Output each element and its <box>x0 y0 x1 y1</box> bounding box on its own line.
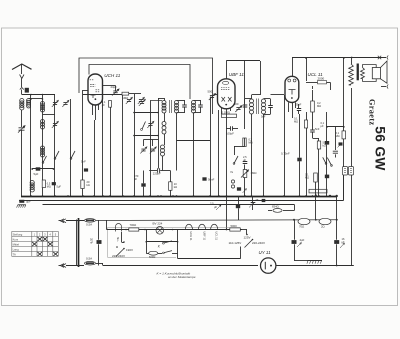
fuse 0.5A top <box>85 219 96 223</box>
capacitor 220pF <box>149 170 157 172</box>
wire screen box B <box>89 65 190 100</box>
wire bus tails <box>343 175 345 201</box>
svg-text:5nF: 5nF <box>81 160 86 164</box>
wire electrolytic 2 <box>336 220 338 240</box>
transformer Fe <box>343 167 348 176</box>
heater UCH11 <box>185 224 192 229</box>
capacitor dark bus2 <box>262 199 266 202</box>
resistor 50kΩ <box>317 141 320 149</box>
svg-text:μF: μF <box>342 240 345 244</box>
capacitor tuning variable <box>19 128 25 130</box>
coil IF1 tertiary <box>162 122 166 135</box>
svg-text:0,5A: 0,5A <box>86 256 92 260</box>
wire antenna node <box>22 94 55 96</box>
coil L3 <box>41 146 45 157</box>
resistor 70Ω oval <box>298 218 310 224</box>
wire vertical x68 <box>70 99 72 196</box>
svg-text:an der Skalenlampe: an der Skalenlampe <box>168 275 196 279</box>
capacitor 50nF mains <box>98 220 100 239</box>
wire link y115 <box>43 114 56 116</box>
wire vertical x134 <box>134 94 136 196</box>
coil antenna primary <box>20 99 24 111</box>
svg-text:MΩ: MΩ <box>47 185 51 188</box>
resistor 0.1MΩ <box>304 120 307 128</box>
svg-text:μF: μF <box>321 124 324 128</box>
capacitor 25 below bus <box>251 203 256 205</box>
wire heater rail <box>106 220 108 229</box>
wire screen feed <box>306 58 308 81</box>
svg-text:UCH 11: UCH 11 <box>189 232 193 242</box>
tube UY11 internals <box>264 262 266 270</box>
resistor 0.1MΩ right <box>342 131 346 139</box>
speaker <box>372 68 380 79</box>
capacitor 16uF electrolytic <box>334 240 339 244</box>
wire y169 <box>32 168 53 170</box>
osc box lower <box>144 139 159 141</box>
wire grid row <box>103 85 116 87</box>
bus second <box>19 200 344 202</box>
wire rail bottom <box>96 263 103 265</box>
wire anode link y61 <box>226 60 260 62</box>
svg-text:5000: 5000 <box>231 224 238 228</box>
wire x158 <box>158 100 160 169</box>
bus junction dots <box>30 195 32 197</box>
lamp socket <box>116 224 122 232</box>
wire speaker top <box>344 57 386 59</box>
coil IF2 secondary <box>262 99 266 114</box>
svg-text:5nF: 5nF <box>261 115 266 119</box>
capacitor dark below bus <box>236 205 240 208</box>
selector left arm <box>116 249 124 257</box>
ground left <box>18 204 26 206</box>
switch S2 <box>70 158 72 160</box>
trimmer trap2 <box>151 149 155 151</box>
resistor 2Ω oval <box>319 218 331 224</box>
wire grid from IF2 <box>271 94 285 96</box>
svg-text:5μF: 5μF <box>57 185 62 189</box>
wire vertical x31 <box>30 95 32 197</box>
capacitor 4uF electrolytic <box>292 240 297 244</box>
svg-text:MΩ: MΩ <box>294 120 298 124</box>
svg-text:μF: μF <box>214 205 217 209</box>
wire y140 link <box>177 140 211 142</box>
svg-text:2Ω: 2Ω <box>321 225 325 229</box>
wire diode left <box>214 94 217 96</box>
wire IF2 bottoms <box>251 114 253 196</box>
trimmer C-L3 <box>53 124 57 126</box>
resistor 10kΩ <box>169 182 172 191</box>
trimmer osc padder <box>127 100 131 102</box>
speaker connection X <box>378 56 381 59</box>
svg-text:5nF: 5nF <box>315 127 320 131</box>
wire bottom rail right <box>276 265 354 267</box>
resistor 0.2MΩ screen <box>311 101 315 112</box>
svg-text:220-240V: 220-240V <box>112 254 125 258</box>
switch mains DPST <box>78 218 80 267</box>
svg-text:0,75nF: 0,75nF <box>281 152 290 156</box>
heater UCL11 <box>211 224 218 229</box>
wire down to bus <box>21 130 23 196</box>
wire x336 bus to rail <box>336 196 338 220</box>
svg-text:UBF 11: UBF 11 <box>202 232 206 241</box>
wire IF1 verticals <box>164 113 166 122</box>
capacitor 100pF <box>231 126 233 131</box>
wire x219 <box>218 110 220 196</box>
wire UCH pins <box>92 105 94 115</box>
wire IF2 tops <box>251 95 253 99</box>
trimmer C-L2 <box>63 103 67 105</box>
wire lamp circuit <box>121 232 123 242</box>
trimmer trap <box>141 149 145 151</box>
switch K <box>163 242 165 244</box>
wire speaker bottom <box>381 86 386 88</box>
svg-text:500: 500 <box>208 90 213 94</box>
switch S0 <box>42 162 44 164</box>
wire vertical x42 <box>42 95 44 197</box>
wire mains bottom <box>66 265 84 267</box>
resistor 1MΩ <box>122 92 129 95</box>
coil L1 <box>41 102 45 113</box>
wire x315.8 down <box>315 196 317 220</box>
trimmer osc 2 <box>139 100 143 102</box>
tube UBF11 <box>218 79 236 109</box>
wire to selector <box>240 229 247 231</box>
heater UBF11 <box>198 224 205 229</box>
wire x83 tube left <box>83 90 88 92</box>
table band switch <box>12 232 59 257</box>
svg-text:UCH 11: UCH 11 <box>104 73 120 78</box>
svg-text:70Ω: 70Ω <box>299 225 304 229</box>
connector TA jacks <box>231 180 234 183</box>
svg-text:190V: 190V <box>126 248 133 252</box>
IF2 core <box>257 99 259 115</box>
capacitor 5nF <box>36 167 41 170</box>
bus third <box>43 204 295 206</box>
capacitor IF1a <box>182 105 187 107</box>
switch osc <box>141 129 143 131</box>
resistor 0.5 MΩ <box>42 180 45 188</box>
wire UBF pins <box>221 108 223 114</box>
junction dots heater rail <box>125 229 127 231</box>
svg-text:Sk.L: Sk.L <box>116 237 119 242</box>
coil IF1 secondary <box>175 101 179 114</box>
coil antenna secondary <box>27 99 31 109</box>
wire transformer secondary <box>363 65 377 68</box>
tube UY11 <box>261 258 276 273</box>
svg-text:125V: 125V <box>244 236 251 240</box>
svg-text:kΩ: kΩ <box>174 185 177 189</box>
potentiometer 1MΩ volume <box>243 170 247 178</box>
svg-text:0,5A: 0,5A <box>86 223 92 227</box>
capacitor IF2b <box>268 106 273 108</box>
svg-text:700Ω: 700Ω <box>130 223 137 227</box>
resistor 0.2MΩ <box>243 138 246 147</box>
svg-text:834Ω: 834Ω <box>272 205 279 209</box>
wire x315 down <box>315 182 317 196</box>
wire x226 junction <box>226 229 228 231</box>
wire x170 <box>170 171 172 182</box>
wire x234 down <box>234 146 236 155</box>
wire top link y99 <box>29 98 43 100</box>
svg-text:56 GW: 56 GW <box>373 126 388 171</box>
svg-text:TA: TA <box>13 252 16 256</box>
tube UCL11 internals <box>288 79 291 82</box>
svg-text:110-125V: 110-125V <box>229 241 242 245</box>
capacitor IF2a <box>243 105 248 107</box>
transformer output primary <box>349 64 354 85</box>
table X marks <box>38 237 43 241</box>
resistor 834Ω oval <box>273 209 282 213</box>
tube UBF11 internals <box>223 81 229 84</box>
svg-text:220-240V: 220-240V <box>252 241 265 245</box>
svg-text:MΩ: MΩ <box>336 134 340 138</box>
svg-text:Kurz: Kurz <box>13 237 19 241</box>
selector box <box>108 228 241 258</box>
svg-text:Mittel: Mittel <box>13 242 20 246</box>
wire vertical x110 <box>110 108 112 197</box>
bus chassis main <box>21 196 337 198</box>
svg-text:5μF: 5μF <box>34 172 39 176</box>
capacitor dark TA <box>237 187 241 190</box>
coil L4 <box>30 181 34 192</box>
svg-text:Lang: Lang <box>13 247 19 251</box>
plug mains bottom <box>62 264 66 268</box>
svg-text:UY 11: UY 11 <box>259 250 272 255</box>
ground chassis comb <box>308 260 323 262</box>
wire vertical x94 <box>94 120 96 196</box>
wire vertical x103 <box>102 96 104 196</box>
trimmer C-L1 <box>53 103 57 105</box>
capacitor IF1b <box>198 105 203 107</box>
svg-text:100pF: 100pF <box>226 132 234 136</box>
capacitor 5nF UCL <box>310 130 315 132</box>
svg-text:kΩ: kΩ <box>87 183 90 187</box>
wire selector down <box>240 247 242 259</box>
wire link y127 <box>327 126 344 128</box>
svg-text:Graetz: Graetz <box>368 99 377 126</box>
resistor 500Ω oval <box>149 251 158 255</box>
svg-text:nF: nF <box>90 241 93 245</box>
wire electrolytic 1 <box>294 220 296 240</box>
resistor cathode <box>109 101 112 108</box>
capacitor dark x327 low <box>325 175 329 179</box>
transformer output secondary <box>361 68 365 79</box>
svg-text:BV 224: BV 224 <box>153 222 163 226</box>
svg-text:MΩ: MΩ <box>249 141 253 145</box>
coil L2 <box>41 120 45 130</box>
tube UCH11 internals <box>90 80 100 92</box>
wire x194 down <box>193 113 195 196</box>
wire UBF top <box>226 61 228 79</box>
wire UCL top <box>292 58 294 77</box>
capacitor dark 10uF <box>207 173 209 175</box>
svg-text:50nF: 50nF <box>208 178 215 182</box>
svg-text:Stellung: Stellung <box>13 232 23 236</box>
network box above bus <box>309 189 327 193</box>
speaker terminal hooks <box>387 56 388 89</box>
wire y94 row <box>83 94 122 96</box>
IF1 core <box>169 100 171 113</box>
resistor 0.1MΩ output grid <box>314 173 318 182</box>
wire B+ right column <box>343 58 345 131</box>
wire anode to transformer <box>351 58 353 65</box>
switch TA <box>233 163 235 165</box>
svg-text:UBF 11: UBF 11 <box>229 72 245 77</box>
transformer output core <box>357 64 359 81</box>
wire rail top <box>96 219 337 222</box>
antenna plug <box>20 88 24 90</box>
coil IF1b <box>192 101 196 114</box>
svg-text:2000: 2000 <box>318 77 325 81</box>
coil IF2 primary <box>250 99 254 114</box>
selector switch arm <box>245 240 253 248</box>
tube UCH11 <box>88 74 103 105</box>
capacitor 5nF osc <box>84 168 88 171</box>
svg-text:MΩ: MΩ <box>317 104 321 108</box>
wire HT box A <box>79 58 213 114</box>
plug mains top <box>62 219 66 223</box>
wire x226 long <box>226 114 228 230</box>
svg-text:5μF: 5μF <box>26 199 31 203</box>
wire x262 down <box>263 125 265 196</box>
wire vertical x123 <box>122 95 124 196</box>
svg-text:500Ω: 500Ω <box>149 255 155 259</box>
switch lamp lower <box>163 252 165 254</box>
capacitor antenna series <box>25 88 29 93</box>
svg-text:MΩ: MΩ <box>305 176 309 180</box>
tube UCL11 <box>285 76 299 102</box>
oscillator box <box>134 112 158 114</box>
wire coil to tuning <box>21 110 23 127</box>
svg-text:500: 500 <box>234 102 239 106</box>
trimmer IF1 <box>140 102 144 104</box>
IF1 top wires <box>150 100 162 102</box>
wire mains top <box>66 220 84 222</box>
svg-text:4μF: 4μF <box>300 238 305 242</box>
coil wave trap <box>161 145 165 156</box>
switch tone <box>331 165 333 167</box>
trimmer IF1 low <box>148 124 152 126</box>
wire x352 down <box>351 57 353 59</box>
wire UCL pins <box>288 103 290 113</box>
capacitor 50nF left <box>202 177 206 180</box>
wire x150 <box>150 101 152 197</box>
wire Fe connections <box>343 175 345 201</box>
capacitor dark osc <box>115 93 117 95</box>
svg-text:UCL 11: UCL 11 <box>214 232 218 241</box>
capacitor feedback <box>335 127 337 150</box>
wire vertical x55 <box>54 95 56 197</box>
capacitor 5uF left <box>19 200 24 203</box>
wire lamp short branch <box>146 230 148 254</box>
svg-text:2,5: 2,5 <box>210 202 214 206</box>
fuse 0.5A bottom <box>85 261 96 265</box>
switch band S1 <box>54 158 56 160</box>
antenna <box>12 64 32 70</box>
capacitor 5uF mid <box>52 182 56 185</box>
resistor 20kΩ <box>81 180 84 189</box>
coil IF1 primary <box>162 101 166 114</box>
capacitor dark right <box>339 142 343 145</box>
svg-text:220pF: 220pF <box>153 172 161 176</box>
svg-text:pF: pF <box>134 177 137 181</box>
